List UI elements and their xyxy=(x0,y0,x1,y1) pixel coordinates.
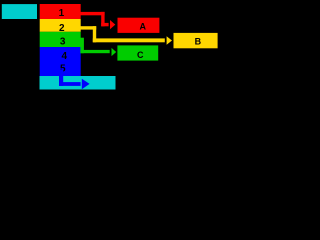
teal bottom bar xyxy=(40,76,116,90)
blue loop-back arrow: vertical wire xyxy=(59,70,63,86)
table box 2 (yellow) xyxy=(40,19,81,32)
svg-text:B: B xyxy=(195,36,202,46)
yellow wire: long horizontal xyxy=(93,38,165,42)
red wire from box 1: horizontal xyxy=(81,12,105,15)
svg-text:C: C xyxy=(137,50,144,60)
red wire: stub xyxy=(101,23,108,26)
yellow arrowhead xyxy=(167,36,172,44)
target box A (red) xyxy=(118,18,160,33)
yellow wire: vertical xyxy=(93,26,96,42)
green wire: horizontal xyxy=(80,50,109,53)
red wire: vertical xyxy=(101,12,104,26)
table box 1 (red) xyxy=(40,4,81,19)
red arrowhead xyxy=(110,20,115,29)
svg-text:A: A xyxy=(139,22,146,32)
svg-text:1: 1 xyxy=(59,8,65,19)
blue loop-back arrowhead xyxy=(82,79,90,90)
target box C (green) xyxy=(117,45,158,60)
svg-text:4: 4 xyxy=(62,51,68,62)
teal pointer box top-left xyxy=(2,4,37,19)
yellow wire from box 2: horizontal xyxy=(81,26,97,29)
svg-text:3: 3 xyxy=(60,37,66,48)
green wire from box 3: vertical xyxy=(80,38,84,54)
blue loop-back arrow: horizontal wire xyxy=(59,82,81,86)
table box 4+5 (blue) xyxy=(40,47,81,76)
target box B (yellow) xyxy=(174,33,218,48)
table box 3 (green) xyxy=(40,32,81,47)
green arrowhead xyxy=(112,48,117,56)
